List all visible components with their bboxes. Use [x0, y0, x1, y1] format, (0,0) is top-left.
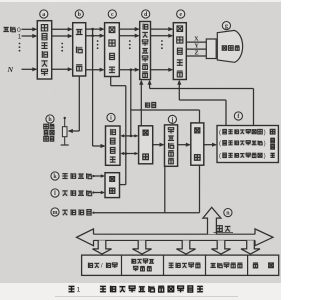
bus down arrow 2	[133, 240, 152, 254]
ellipsis between a and b	[61, 43, 63, 52]
wire b to c line1	[86, 34, 105, 38]
ellipsis between d and e	[161, 40, 163, 49]
wire j bottom down to trigger wire	[164, 166, 166, 212]
node k circle	[51, 172, 59, 180]
caption rule	[55, 296, 238, 298]
wire c to d line1	[119, 34, 139, 38]
label channel N	[7, 65, 14, 74]
label 中央处理器 CPU	[168, 262, 200, 268]
bus horizontal double line with end arrows	[77, 229, 274, 246]
node n circle	[224, 209, 232, 217]
wire i to or1 upper	[120, 134, 138, 137]
block clock or-gate 或门	[105, 173, 120, 198]
CRT bell 显示器	[217, 30, 242, 62]
block a glitch pulse detector 毛刺脉冲检测	[37, 21, 51, 79]
wire k to clock-or	[92, 174, 105, 178]
ellipsis between b and c	[97, 40, 99, 49]
label Y	[194, 43, 199, 50]
node h circle	[46, 115, 54, 123]
bus big up arrow	[203, 207, 221, 234]
wire from b bottom down to threshold resistor	[68, 76, 80, 133]
wire a to b lineN	[52, 67, 73, 71]
wire b to c line0	[86, 27, 105, 31]
wire a to b line0	[52, 27, 73, 31]
label 门限电平调节 threshold level adjust	[43, 124, 54, 142]
label 随机存取存储器 RAM	[131, 259, 154, 272]
node label d	[142, 10, 150, 18]
wire X to CRT	[186, 41, 206, 43]
wire d to e line0	[151, 27, 174, 31]
node i circle	[107, 113, 115, 121]
bus down arrow 1	[93, 240, 112, 254]
bus down arrow 5	[241, 240, 260, 254]
wire vertical from c-d lineN down to or-gate1 input line	[130, 70, 132, 136]
node label e	[177, 10, 185, 18]
label 输入/输出 I/O	[87, 262, 117, 269]
node j circle	[168, 115, 176, 123]
wire f to e	[177, 80, 226, 126]
wire clock or-gate output join	[120, 184, 126, 186]
node label a	[40, 10, 48, 18]
node m circle	[51, 208, 59, 216]
block c sampling circuit 采样电路	[105, 23, 120, 77]
node l circle	[51, 189, 59, 197]
label 外部触发 external trigger	[62, 209, 92, 215]
label X	[194, 36, 199, 43]
wire b to c lineN	[86, 68, 105, 72]
svg-text:1: 1	[77, 287, 81, 294]
wire channel 1 into a	[22, 34, 38, 38]
caption 图1 逻辑分析仪基本原理框图	[68, 286, 203, 294]
bus down arrow 4	[212, 240, 231, 254]
wire d to e line1	[151, 34, 174, 38]
block d RAM 随机存取存储器	[140, 22, 151, 80]
CRT neck	[206, 39, 216, 59]
label 内部时钟 internal clock	[62, 173, 92, 179]
wire m external trigger to or2 bottom	[92, 165, 199, 214]
label 总线 bus	[214, 225, 234, 232]
wire channel 0 into a	[22, 27, 38, 31]
block b comparator 比较器	[73, 23, 86, 76]
wire from c bottom down to trigger row	[111, 77, 126, 185]
node label b	[75, 10, 83, 18]
block or-gate2 或门	[191, 123, 204, 165]
label channel 0	[3, 26, 21, 34]
node f circle	[234, 112, 242, 120]
node label g	[222, 22, 230, 30]
label channel 1	[18, 34, 22, 41]
wire l to clock-or	[92, 191, 105, 195]
wire j to or2	[178, 143, 191, 147]
wire i to or1 lower	[120, 152, 138, 155]
bottom block row frame	[82, 255, 279, 275]
wire or1 to j	[153, 143, 165, 147]
channel ellipsis	[19, 43, 21, 52]
node label c	[108, 10, 116, 18]
wire channel N into a	[22, 67, 38, 71]
block or-gate1 或门	[139, 126, 153, 164]
block f CRT control circuit 控制电路	[217, 126, 278, 163]
threshold resistor R	[61, 117, 69, 145]
wire or-gate1 output up into d	[139, 80, 143, 126]
label 触发 trigger	[144, 102, 156, 108]
label 只读存储器 ROM	[210, 262, 242, 268]
ellipsis between c and d	[129, 40, 131, 49]
wire Z to CRT	[186, 55, 206, 57]
block i trigger circuit 触发电路	[106, 126, 121, 165]
block e display generator 显示发生器	[173, 23, 186, 80]
block j delay counter 延时计数器	[165, 125, 178, 166]
label 外部时钟 external clock	[62, 190, 92, 196]
wire 触发 trigger line to or-gate2 top	[131, 110, 200, 123]
wire c to d lineN	[119, 68, 139, 72]
wire tap from b-c lines down to trigger circuit	[93, 29, 106, 148]
wire d to e lineN	[151, 68, 174, 72]
wire or2 to control f	[204, 143, 217, 147]
wire c to d line0	[119, 27, 139, 31]
wire f to d	[148, 80, 254, 126]
label 键盘 keyboard	[253, 262, 274, 268]
wire Y to CRT	[186, 48, 206, 50]
bus down arrow 3	[177, 240, 196, 254]
wire a to b line1	[52, 34, 73, 38]
label Z	[195, 50, 199, 57]
